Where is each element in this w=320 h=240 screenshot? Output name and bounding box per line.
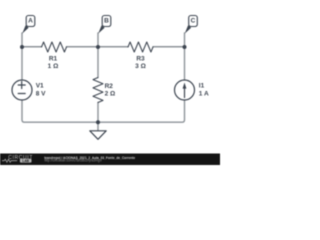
svg-text:LAB: LAB	[22, 159, 29, 163]
svg-text:C: C	[191, 17, 196, 24]
svg-text:I1: I1	[199, 83, 205, 90]
svg-text:2 Ω: 2 Ω	[105, 91, 116, 98]
svg-text:http://circuitlab.com/c/5zt36u: http://circuitlab.com/c/5zt36u2ry/a3mg9	[44, 158, 102, 162]
svg-text:R1: R1	[49, 56, 58, 63]
svg-text:R2: R2	[105, 83, 114, 90]
svg-text:A: A	[28, 17, 33, 24]
svg-text:1 Ω: 1 Ω	[48, 63, 59, 70]
svg-text:1 A: 1 A	[199, 90, 209, 97]
svg-text:V1: V1	[36, 83, 44, 90]
svg-text:3 Ω: 3 Ω	[135, 63, 146, 70]
svg-text:R3: R3	[136, 56, 145, 63]
svg-text:8 V: 8 V	[36, 90, 46, 97]
svg-text:B: B	[104, 17, 109, 24]
